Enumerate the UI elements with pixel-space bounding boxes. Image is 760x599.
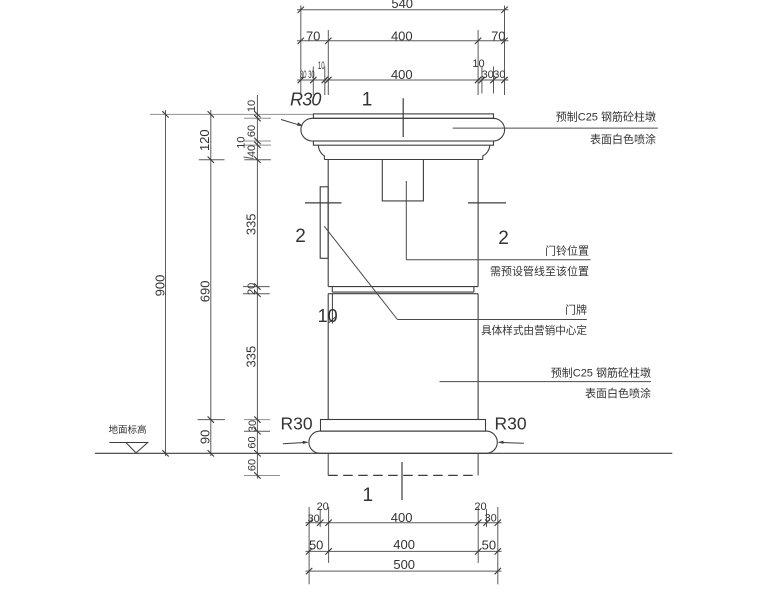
tick x3 y114.2 xyxy=(254,111,260,117)
svg-text:R30: R30 xyxy=(281,414,313,434)
svg-text:70: 70 xyxy=(491,29,505,44)
R30 top leader xyxy=(281,120,302,126)
tick x2 y159.7 xyxy=(208,157,214,163)
tick x3 y453.3 xyxy=(254,450,260,456)
svg-text:30: 30 xyxy=(308,69,314,81)
tick 900 bottom xyxy=(162,450,168,456)
extension line y=293.7 xyxy=(243,293,270,295)
svg-text:70: 70 xyxy=(306,29,320,44)
tick row2 x478.1 xyxy=(475,38,481,44)
svg-text:1: 1 xyxy=(362,90,373,111)
tick row3 x481.9 xyxy=(479,77,485,83)
svg-text:预制C25 钢筋砼柱墩: 预制C25 钢筋砼柱墩 xyxy=(556,110,656,124)
joint upper line xyxy=(328,286,478,288)
leader door plate diagonal xyxy=(324,226,397,319)
tick rowA x486.5 xyxy=(483,520,489,526)
extension line shaft left x=328.3 xyxy=(327,30,329,95)
ground symbol triangle xyxy=(126,443,148,453)
svg-text:2: 2 xyxy=(498,228,509,249)
joint recess left edge xyxy=(331,287,333,293)
svg-text:1: 1 xyxy=(363,485,374,506)
tick rowC right xyxy=(495,568,501,574)
tick rowB x478.2 xyxy=(475,548,481,554)
tick row3 x504.5 xyxy=(501,77,507,83)
tick x3 y159.7 xyxy=(254,157,260,163)
tick row2 x300.8 xyxy=(298,38,304,44)
svg-text:60: 60 xyxy=(247,459,259,471)
svg-text:30: 30 xyxy=(493,69,505,81)
tick x3 y144.9 xyxy=(254,142,260,148)
svg-text:60: 60 xyxy=(247,436,259,448)
mini arrow for 40 xyxy=(244,157,254,159)
extension line y=114.4 xyxy=(150,113,313,115)
cavetto right xyxy=(483,145,490,159)
svg-text:10: 10 xyxy=(318,60,325,72)
tick row2 x504.5 xyxy=(501,38,507,44)
foundation dashed bottom xyxy=(328,474,478,476)
base stadium xyxy=(309,431,497,453)
section line 1 bottom xyxy=(401,462,403,500)
svg-text:10: 10 xyxy=(318,306,338,326)
tick row2 x328.3 xyxy=(325,38,331,44)
tick x2 y419.6 xyxy=(208,416,214,422)
section line 2 right xyxy=(468,202,506,204)
svg-text:400: 400 xyxy=(391,510,413,525)
tick x3 y118.1 xyxy=(254,115,260,121)
extension x=497.8 xyxy=(497,507,499,584)
svg-text:门牌: 门牌 xyxy=(565,303,587,317)
section line 1 top xyxy=(402,98,404,137)
ground line xyxy=(95,452,672,454)
tick row3 x328.3 xyxy=(325,77,331,83)
extension x=486.5 xyxy=(486,509,488,527)
tick row3 x493.5 xyxy=(490,77,496,83)
dim column right x=257.4 xyxy=(256,95,258,479)
joint 10 extension xyxy=(331,294,333,324)
extension line y=118.2 xyxy=(244,117,271,119)
extension x=309.1 xyxy=(308,507,310,584)
extension x=328.6 xyxy=(328,507,330,563)
svg-text:50: 50 xyxy=(482,537,496,552)
joint 10 tick xyxy=(329,316,337,323)
tick row3 x478.1 xyxy=(475,77,481,83)
tick x3 y419.6 xyxy=(254,416,260,422)
dim column 120 690 90 xyxy=(210,110,212,456)
tick rowA x309.1 xyxy=(306,520,312,526)
tick 540 right xyxy=(501,7,507,13)
R30 bottom right leader xyxy=(500,441,524,444)
tick x3 y293.7 xyxy=(254,291,260,297)
cap lower band xyxy=(313,141,493,145)
leader doorbell horizontal xyxy=(406,259,590,261)
extension line y=475.5 xyxy=(244,475,280,477)
svg-text:2: 2 xyxy=(295,226,306,247)
svg-text:60: 60 xyxy=(246,125,258,137)
svg-text:120: 120 xyxy=(197,129,212,151)
svg-text:335: 335 xyxy=(244,346,259,368)
extension line y=419.6 a xyxy=(198,419,226,421)
leader cap annotation xyxy=(453,127,658,129)
doorbell niche xyxy=(382,160,423,201)
tick rowB x309.1 xyxy=(306,548,312,554)
svg-text:900: 900 xyxy=(152,275,167,297)
dim column 900 xyxy=(165,110,167,456)
svg-text:50: 50 xyxy=(309,537,323,552)
svg-text:30: 30 xyxy=(247,420,259,432)
svg-text:R30: R30 xyxy=(290,90,321,110)
svg-text:40: 40 xyxy=(246,145,258,157)
cavetto left xyxy=(318,145,324,159)
svg-text:90: 90 xyxy=(198,430,213,444)
svg-text:具体样式由营销中心定: 具体样式由营销中心定 xyxy=(481,324,587,337)
tick 540 left xyxy=(298,7,304,13)
svg-text:10: 10 xyxy=(246,100,258,112)
svg-text:30: 30 xyxy=(482,69,494,81)
tick row3 x300.8 xyxy=(298,77,304,83)
tick rowA x320.2 xyxy=(317,520,323,526)
extension line y=145.1 xyxy=(244,144,271,146)
svg-text:表面白色喷涂: 表面白色喷涂 xyxy=(585,386,651,400)
ground symbol bar xyxy=(109,442,148,444)
svg-text:400: 400 xyxy=(391,67,413,82)
tick rowC left xyxy=(306,568,312,574)
section line 2 left xyxy=(305,202,342,204)
extension line y=431.2 xyxy=(244,430,270,432)
svg-text:400: 400 xyxy=(393,537,415,552)
joint recess right edge xyxy=(473,287,475,293)
svg-text:400: 400 xyxy=(391,29,413,44)
extension line x=324.8 xyxy=(324,67,326,96)
svg-text:30: 30 xyxy=(308,513,320,525)
lower shaft left edge xyxy=(327,294,329,420)
joint recess line xyxy=(332,291,474,293)
foundation right edge xyxy=(477,453,479,475)
extension x=478.2 xyxy=(477,507,479,563)
tick x3 y140.9 xyxy=(254,138,260,144)
tick rowB x497.8 xyxy=(495,548,501,554)
extension line y=141 xyxy=(244,140,271,142)
extension line y=286.6 xyxy=(243,286,270,288)
svg-text:地面标高: 地面标高 xyxy=(109,424,147,436)
extension line y=159.7 a xyxy=(199,159,225,161)
tick x3 y475.5 xyxy=(254,472,260,478)
extension line x=493.5 xyxy=(493,67,495,94)
extension line left outer x=300.8 xyxy=(300,6,302,96)
svg-text:690: 690 xyxy=(198,281,213,303)
dim line row A xyxy=(306,522,502,524)
tick 900 top xyxy=(162,111,168,117)
svg-text:20: 20 xyxy=(246,283,258,295)
tick rowA x328.6 xyxy=(325,520,331,526)
dimension line 540 xyxy=(297,9,509,11)
svg-text:表面白色喷涂: 表面白色喷涂 xyxy=(590,132,656,146)
extension line shaft right x=478.1 xyxy=(477,30,479,95)
tick row3 x324.8 xyxy=(322,77,328,83)
tick x2 y114.4 xyxy=(208,111,214,117)
tick row3 x313.3 xyxy=(310,77,316,83)
lower shaft right edge xyxy=(477,294,479,420)
tick x3 y286.6 xyxy=(254,283,260,289)
joint lower line xyxy=(328,293,478,295)
foundation left edge xyxy=(327,453,329,475)
leader lower shaft annotation xyxy=(440,381,651,383)
svg-text:30: 30 xyxy=(484,513,496,525)
door plate xyxy=(320,187,328,258)
upper shaft left edge xyxy=(327,160,329,287)
dim line row C 500 xyxy=(306,570,502,572)
svg-text:预制C25 钢筋砼柱墩: 预制C25 钢筋砼柱墩 xyxy=(551,366,651,380)
tick rowA x478.2 xyxy=(475,520,481,526)
leader door plate horizontal xyxy=(397,319,586,321)
svg-text:R30: R30 xyxy=(495,414,527,434)
dimension line 30 30 10 400 10 30 30 xyxy=(297,79,509,81)
ring bottom line xyxy=(324,159,482,161)
cap top plate xyxy=(313,114,493,118)
svg-text:20: 20 xyxy=(474,501,486,513)
svg-text:500: 500 xyxy=(393,557,415,572)
extension line right outer x=504.5 xyxy=(504,6,506,96)
dimension line 70 400 70 xyxy=(297,40,509,42)
R30 bottom left leader xyxy=(283,442,307,443)
svg-text:需预设管线至该位置: 需预设管线至该位置 xyxy=(490,264,589,278)
cap stadium xyxy=(301,118,505,141)
extension line y=159.7 b xyxy=(244,159,271,161)
leader doorbell vertical xyxy=(405,181,407,260)
tick x2 y453.3 xyxy=(208,450,214,456)
extension line x=313.3 xyxy=(312,67,314,96)
upper shaft right edge xyxy=(477,160,479,287)
dim line row B xyxy=(306,550,502,552)
svg-text:门铃位置: 门铃位置 xyxy=(545,244,589,258)
tick rowB x328.6 xyxy=(325,548,331,554)
tick rowA x497.8 xyxy=(495,520,501,526)
svg-text:540: 540 xyxy=(391,0,413,11)
svg-text:20: 20 xyxy=(317,501,329,513)
extension line x=481.9 xyxy=(481,67,483,94)
base plinth xyxy=(321,420,486,432)
extension x=320.2 xyxy=(319,509,321,527)
svg-text:30: 30 xyxy=(300,69,306,81)
svg-text:335: 335 xyxy=(244,213,259,235)
tick x3 y431.2 xyxy=(254,428,260,434)
extension line y=419.6 b xyxy=(244,419,270,421)
